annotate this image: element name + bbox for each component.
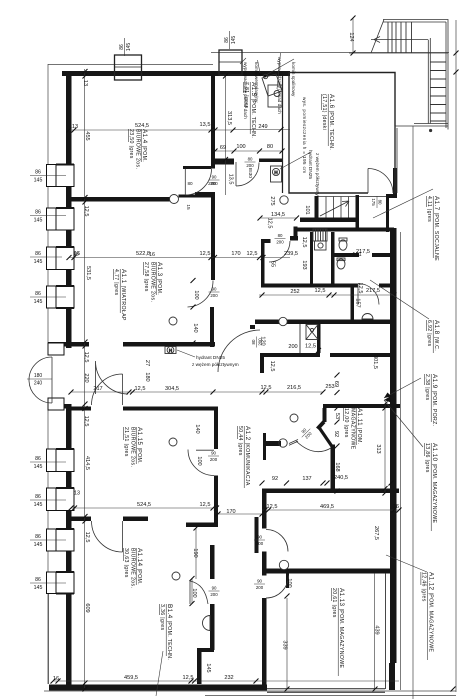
A1.12/A1.13 left wall: [262, 493, 267, 529]
svg-text:200: 200: [210, 457, 218, 462]
A1.11 walls: [323, 404, 400, 408]
svg-text:80: 80: [187, 181, 193, 186]
svg-text:101: 101: [304, 205, 310, 214]
svg-text:86: 86: [35, 494, 41, 500]
svg-text:4,77 |gres: 4,77 |gres: [113, 269, 119, 296]
svg-text:16: 16: [393, 504, 399, 510]
label A1.8: [426, 320, 440, 353]
entrance door label: [27, 373, 52, 387]
svg-text:414,5: 414,5: [84, 456, 90, 470]
small wall piece near hall: [195, 192, 215, 196]
room symbols circles: [170, 195, 179, 204]
door A1.15 right wall: [188, 450, 214, 476]
entrance porch blocks: [48, 343, 64, 355]
A1.6 room box: [289, 73, 395, 194]
chimney fraction labels: [119, 31, 237, 56]
label A1.11: [343, 408, 363, 450]
svg-text:12,5: 12,5: [183, 675, 194, 681]
svg-text:H: H: [274, 170, 277, 175]
svg-text:hydrant DN25: hydrant DN25: [196, 355, 225, 360]
svg-text:193: 193: [301, 260, 307, 269]
svg-text:12,5: 12,5: [305, 344, 316, 350]
svg-text:7,81 |gres: 7,81 |gres: [243, 82, 249, 109]
outer offset line left: [47, 64, 49, 684]
svg-text:80: 80: [378, 200, 383, 205]
svg-text:80: 80: [278, 233, 283, 238]
wall bottom of A1.3 block: [48, 342, 89, 347]
svg-text:12,5: 12,5: [261, 385, 272, 391]
svg-text:A1.1 |WIATROŁAP: A1.1 |WIATROŁAP: [120, 269, 127, 321]
horizontal dimension texts: [53, 122, 399, 682]
svg-text:267,5: 267,5: [373, 526, 379, 540]
svg-text:170: 170: [226, 509, 235, 515]
svg-text:200: 200: [256, 541, 264, 546]
WC vestibule block walls: [261, 239, 271, 243]
svg-text:220: 220: [83, 373, 89, 382]
svg-text:180: 180: [144, 372, 150, 381]
svg-text:MAGAZYNOWE: MAGAZYNOWE: [350, 408, 356, 450]
svg-text:140: 140: [192, 323, 198, 332]
svg-text:A1.13 |POM. MAGAZYNOWE: A1.13 |POM. MAGAZYNOWE: [338, 588, 345, 668]
svg-text:12,5: 12,5: [84, 532, 90, 543]
sink B1.4: [203, 616, 210, 631]
chain A1.12 y507: [262, 509, 399, 511]
svg-text:86: 86: [119, 44, 125, 50]
svg-text:hydrant DN25: hydrant DN25: [308, 150, 313, 179]
svg-text:459,5: 459,5: [124, 675, 138, 681]
svg-text:H: H: [169, 348, 172, 353]
svg-text:A1.14 |POM.: A1.14 |POM.: [136, 548, 143, 585]
svg-text:A1.10 |POM. MAGAZYNOWE: A1.10 |POM. MAGAZYNOWE: [431, 443, 438, 523]
window block y208: [47, 207, 75, 230]
svg-text:2,38 |gres: 2,38 |gres: [424, 374, 430, 401]
right wall of A1.4/A1.3: [211, 76, 215, 169]
chain A1.15 y508: [71, 507, 218, 509]
svg-text:140: 140: [194, 424, 200, 433]
top chimney annotations: [243, 57, 296, 119]
chain bottom y681: [53, 680, 399, 682]
svg-text:A1.15 |POM.: A1.15 |POM.: [136, 427, 143, 464]
svg-text:90: 90: [212, 287, 217, 292]
svg-text:217: 217: [93, 386, 102, 392]
svg-text:100: 100: [191, 588, 197, 597]
spur wall left of A1.4 door: [183, 166, 211, 169]
svg-text:13: 13: [74, 491, 80, 497]
top exterior wall: [62, 71, 290, 76]
svg-text:27: 27: [144, 360, 150, 366]
svg-text:A1.12 |POM. MAGAZYNOWE: A1.12 |POM. MAGAZYNOWE: [428, 572, 435, 652]
vertical stair 124: [352, 18, 354, 53]
chain y514 (170): [218, 513, 262, 515]
vertical (rotated) dimension texts: [82, 32, 381, 672]
x413 reference line: [412, 126, 414, 699]
ticks chain y151: [213, 149, 285, 154]
corridor wall y353: [260, 353, 320, 357]
vertical chain x85: [84, 69, 86, 688]
svg-text:23,50 |gres: 23,50 |gres: [128, 129, 134, 159]
door below A1.5 (100): [236, 162, 259, 186]
hydrant box A1.5: [271, 166, 282, 182]
svg-text:216,5: 216,5: [287, 385, 301, 391]
stair hall walls: [315, 196, 319, 222]
svg-text:86: 86: [35, 210, 41, 216]
svg-text:16: 16: [149, 252, 155, 258]
svg-text:90: 90: [211, 451, 216, 456]
direction arrow: [374, 37, 380, 43]
svg-text:92: 92: [333, 431, 339, 437]
duct grille + washbasin WC: [313, 229, 327, 241]
svg-text:12,5: 12,5: [83, 206, 89, 217]
svg-text:EI30: EI30: [247, 168, 253, 178]
wall top of A1.15: [71, 407, 91, 411]
window block y572: [47, 571, 75, 595]
svg-text:4,11 |gres: 4,11 |gres: [426, 196, 432, 222]
svg-text:92: 92: [272, 476, 278, 482]
hydrant annotations: [177, 150, 320, 367]
door A1.3 -> hall (100): [188, 281, 214, 308]
svg-text:313: 313: [375, 444, 381, 453]
svg-text:304,5: 304,5: [165, 386, 179, 392]
svg-text:100: 100: [286, 578, 292, 587]
svg-text:z wężem półsztywnym: z wężem półsztywnym: [192, 362, 239, 367]
svg-text:200: 200: [288, 344, 297, 350]
svg-text:BIUROWE 2os.: BIUROWE 2os.: [130, 548, 136, 588]
outer offset line top-left: [48, 64, 213, 66]
window block y286: [47, 285, 75, 309]
svg-text:BIUROWE 2os.: BIUROWE 2os.: [135, 129, 141, 169]
label A1.10: [424, 443, 438, 531]
svg-text:161: 161: [352, 252, 361, 258]
ticks chain y392: [69, 390, 326, 395]
window block y164: [47, 164, 75, 187]
diagonal cut: [371, 20, 384, 54]
svg-text:180: 180: [34, 373, 43, 379]
closet partition + shower: [299, 324, 301, 353]
svg-text:12,5: 12,5: [83, 416, 89, 427]
svg-text:86: 86: [224, 37, 230, 43]
door A1.14: [92, 521, 123, 552]
svg-text:90: 90: [212, 175, 217, 180]
door B1.4 area: [190, 581, 208, 604]
wall A1.15/A1.14 divider: [66, 517, 91, 522]
svg-text:27,58 |gres: 27,58 |gres: [143, 262, 149, 292]
right exterior wall: [390, 228, 397, 663]
svg-text:16: 16: [53, 676, 59, 682]
svg-text:B1.4 |POM. TECHN.: B1.4 |POM. TECHN.: [166, 604, 173, 660]
door wiatrolap exterior (entrance double): [29, 357, 52, 403]
wall A1.4/A1.3 divider: [71, 197, 170, 202]
corridor bottom wall / A1.12 top: [262, 489, 399, 494]
svg-text:217,5: 217,5: [366, 288, 380, 294]
svg-text:100: 100: [236, 144, 245, 150]
svg-text:A1.9 |POM. PORZ.: A1.9 |POM. PORZ.: [431, 374, 438, 426]
svg-text:145: 145: [34, 542, 43, 548]
svg-text:20,61 |gres: 20,61 |gres: [331, 588, 337, 618]
label A1.13: [331, 588, 345, 676]
svg-text:A1.3 |POM.: A1.3 |POM.: [156, 262, 163, 295]
svg-text:16: 16: [73, 252, 79, 258]
svg-text:145: 145: [126, 43, 132, 52]
svg-text:145: 145: [205, 663, 211, 672]
vertical x234 (313,5): [225, 76, 227, 195]
svg-text:124: 124: [348, 32, 354, 41]
svg-text:86: 86: [35, 577, 41, 583]
svg-text:145: 145: [34, 502, 43, 508]
door A1.11: [289, 440, 331, 452]
wall below A1.9: [255, 320, 394, 325]
svg-text:13: 13: [72, 124, 78, 130]
door A1.4 -> hall (100): [185, 169, 211, 195]
door corridor y353 arc: [218, 330, 260, 372]
top flight risers: [388, 22, 412, 53]
svg-text:12,5: 12,5: [267, 504, 278, 510]
svg-text:200: 200: [256, 585, 264, 590]
door corridor big arc: [95, 361, 128, 394]
svg-text:145: 145: [34, 178, 43, 184]
ticks right margin x456: [454, 51, 459, 75]
label A1.2: [237, 426, 251, 488]
svg-text:3,36 |gres: 3,36 |gres: [159, 604, 165, 631]
svg-text:komin spalinowy: komin spalinowy: [291, 62, 296, 97]
svg-text:86: 86: [35, 534, 41, 540]
basin on wall y319: [362, 314, 373, 320]
ticks chain y257.5: [67, 255, 266, 260]
door WC vestibule top: [269, 241, 290, 262]
svg-text:21,51 |gres: 21,51 |gres: [123, 427, 129, 457]
svg-text:12,5: 12,5: [357, 283, 363, 294]
svg-text:157: 157: [355, 298, 361, 307]
svg-text:145: 145: [34, 299, 43, 305]
svg-text:53: 53: [334, 413, 340, 419]
right margin dimension line: [455, 20, 457, 692]
svg-text:12,5: 12,5: [83, 352, 89, 363]
svg-text:524,5: 524,5: [137, 502, 151, 508]
svg-text:240: 240: [34, 381, 43, 387]
label A1.6: [321, 94, 335, 150]
chain y387 segment right: [262, 391, 323, 393]
svg-text:200: 200: [276, 239, 284, 244]
svg-text:168: 168: [334, 462, 340, 471]
svg-text:50,44 |gres: 50,44 |gres: [237, 426, 243, 456]
svg-text:100: 100: [193, 290, 199, 299]
leader lines to right-hand labels: [156, 189, 433, 696]
label A1.5: [243, 82, 257, 138]
svg-text:12,5: 12,5: [267, 218, 273, 229]
svg-text:339: 339: [282, 640, 288, 649]
bottom exterior wall: [49, 685, 267, 691]
svg-text:200: 200: [210, 293, 218, 298]
svg-text:12,46 |gres: 12,46 |gres: [421, 572, 427, 602]
label A1.1: [113, 269, 127, 321]
right wall below stairs: [395, 126, 397, 193]
svg-text:137: 137: [302, 476, 311, 482]
chain WC y295: [259, 294, 394, 296]
door A1.12: [266, 530, 288, 552]
toilet 1: [339, 240, 347, 250]
vertical x385 (313): [384, 404, 386, 493]
ticks chain x85: [83, 69, 88, 692]
window fraction labels 86/145: [30, 170, 155, 592]
door A1.9: [358, 284, 379, 305]
svg-text:455: 455: [84, 131, 90, 140]
left exterior wall: [66, 71, 72, 348]
door A1.13: [266, 576, 289, 599]
vertical x374.5 (439) + x287 (339): [287, 573, 375, 690]
svg-text:240,5: 240,5: [334, 475, 348, 481]
svg-text:175: 175: [371, 198, 376, 206]
svg-text:13,5: 13,5: [200, 122, 211, 128]
svg-text:13: 13: [82, 80, 88, 86]
window block y488: [47, 487, 75, 511]
svg-text:86: 86: [35, 170, 41, 176]
svg-text:12,5: 12,5: [135, 386, 146, 392]
ticks chain y218.5 y295 y483: [258, 216, 322, 354]
corridor jog near column: [263, 433, 266, 460]
svg-text:170: 170: [231, 251, 240, 257]
svg-text:200: 200: [246, 163, 254, 168]
svg-text:12,5: 12,5: [200, 251, 211, 257]
right upper wall pieces: [386, 194, 397, 198]
ticks chain y510 right: [263, 508, 402, 513]
label A1.4: [128, 129, 148, 169]
chimney 1: [115, 55, 142, 80]
A1.7 room top line: [359, 196, 386, 198]
svg-text:145: 145: [34, 259, 43, 265]
svg-text:80: 80: [248, 157, 253, 162]
right wall of A1.15/A1.14: [214, 410, 218, 449]
svg-text:232: 232: [224, 675, 233, 681]
svg-text:12,5: 12,5: [301, 237, 307, 248]
svg-text:469,5: 469,5: [320, 504, 334, 510]
svg-text:145: 145: [34, 585, 43, 591]
label A1.9: [424, 374, 438, 426]
svg-text:12,5: 12,5: [269, 361, 275, 372]
svg-text:86: 86: [35, 291, 41, 297]
chain A1.5 y129.5: [233, 129, 290, 131]
svg-text:145: 145: [34, 464, 43, 470]
toilet 2: [337, 259, 345, 269]
A1.12/A1.13 divider: [264, 569, 394, 574]
svg-text:90: 90: [257, 579, 262, 584]
entrance recess walls: [48, 344, 64, 348]
wall below A1.5: [214, 159, 234, 165]
svg-text:86: 86: [35, 456, 41, 462]
svg-text:86: 86: [35, 251, 41, 257]
svg-text:69: 69: [220, 145, 226, 151]
hydrant lower (corridor): [165, 347, 176, 354]
svg-text:12,5: 12,5: [315, 288, 326, 294]
svg-text:100: 100: [196, 456, 202, 465]
svg-text:12,5: 12,5: [247, 251, 258, 257]
svg-text:12,00 |gres: 12,00 |gres: [343, 408, 349, 438]
right flight risers: [430, 62, 446, 121]
svg-text:200: 200: [210, 592, 218, 597]
svg-text:A1.7 |POM. SOCJALNE: A1.7 |POM. SOCJALNE: [433, 196, 440, 261]
outer face line right: [400, 232, 402, 690]
ticks doors/misc verticals: [190, 278, 199, 606]
svg-text:wys. pomieszczenia h = 195 cm: wys. pomieszczenia h = 195 cm: [302, 97, 307, 173]
svg-text:z wężem półsztywnym: z wężem półsztywnym: [315, 153, 320, 200]
chain corridor y392: [71, 391, 262, 393]
column circles: [280, 196, 288, 204]
svg-text:252: 252: [290, 289, 299, 295]
svg-text:531,5: 531,5: [85, 266, 91, 280]
flight bottom line: [349, 52, 448, 54]
bottom margin line: [44, 690, 456, 692]
svg-text:BIUROWE 2os.: BIUROWE 2os.: [150, 262, 156, 302]
svg-text:A1.4 |POM.: A1.4 |POM.: [141, 129, 148, 162]
vertical x196 (190): [195, 528, 197, 579]
svg-text:13,5: 13,5: [228, 174, 234, 185]
door labels: [208, 157, 383, 597]
svg-text:439: 439: [374, 625, 380, 634]
svg-text:249: 249: [258, 124, 267, 130]
svg-text:15: 15: [185, 204, 191, 210]
window block y247: [47, 246, 75, 270]
door A1.15 (from corridor): [92, 374, 123, 405]
lower-left outer face line: [47, 594, 49, 684]
door near A1.14 bottom right: [189, 580, 191, 604]
chain A1.4 y130: [69, 129, 233, 131]
svg-text:6,92 |gres: 6,92 |gres: [426, 320, 432, 347]
ticks chain y508/514: [69, 506, 265, 517]
window block y529: [47, 528, 75, 551]
svg-text:(17,51) |deski: (17,51) |deski: [321, 94, 327, 130]
outer offset line top-right: [211, 52, 449, 54]
svg-text:313,5: 313,5: [226, 111, 232, 125]
svg-text:A1.11 |POM.: A1.11 |POM.: [356, 408, 363, 444]
A1.5 right wall double line: [282, 76, 284, 193]
extra bottom line: [205, 695, 456, 697]
ticks chain y681: [51, 679, 259, 684]
svg-text:12,5: 12,5: [200, 502, 211, 508]
svg-text:55: 55: [270, 261, 276, 267]
chain y151: [215, 150, 283, 152]
svg-text:200: 200: [257, 338, 262, 346]
svg-text:A1.6 |POM. TECHN.: A1.6 |POM. TECHN.: [328, 94, 335, 150]
svg-text:190: 190: [192, 548, 198, 557]
svg-text:90: 90: [257, 535, 262, 540]
label A1.14: [123, 548, 143, 588]
column on hall wall: [279, 317, 287, 325]
svg-text:522,8: 522,8: [136, 251, 150, 257]
interior stair (going down): [319, 197, 357, 218]
stair outer walls: [383, 20, 448, 130]
flue + box at A1.5: [259, 73, 282, 107]
vertical x192 (100 door): [191, 578, 193, 604]
svg-text:A1.8 |W.C.: A1.8 |W.C.: [433, 320, 440, 351]
door A1.6 bottom: [368, 169, 393, 194]
svg-text:A1.5 |POM. TECHN.: A1.5 |POM. TECHN.: [250, 82, 257, 138]
svg-text:145: 145: [231, 36, 237, 45]
chain y218: [260, 217, 297, 219]
svg-text:275: 275: [269, 196, 275, 205]
svg-text:90: 90: [212, 586, 217, 591]
svg-text:80: 80: [251, 339, 256, 344]
chimney 2: [219, 50, 242, 75]
svg-text:13,86 |gres: 13,86 |gres: [424, 443, 430, 473]
A1.13 inner right edge: [385, 573, 387, 689]
label B1.4: [159, 604, 173, 660]
svg-text:A1.2 |KOMUNIKACJA: A1.2 |KOMUNIKACJA: [244, 426, 251, 486]
svg-text:30,63 |gres: 30,63 |gres: [123, 548, 129, 578]
label A1.7: [426, 196, 440, 261]
svg-text:239,5: 239,5: [284, 251, 298, 257]
label A1.3: [143, 262, 163, 302]
chain y257.5: [69, 257, 290, 259]
svg-text:301,5: 301,5: [372, 355, 378, 369]
label A1.15: [123, 427, 143, 467]
